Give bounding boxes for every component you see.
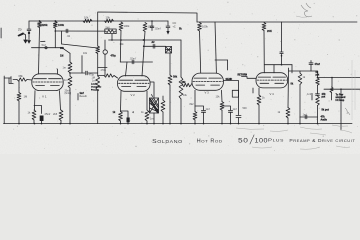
- supply drop: [97, 21, 99, 46]
- svg-text:FX loop: FX loop: [336, 99, 345, 102]
- x341 column: [340, 88, 342, 90]
- x61.6 drop to y44: [61, 31, 63, 44]
- scan noise streaks: [236, 125, 352, 149]
- svg-text:V 4: V 4: [270, 92, 275, 96]
- paper edge mark: [0, 28, 2, 38]
- svg-text:.02mf: .02mf: [155, 28, 161, 31]
- svg-text:1M: 1M: [60, 54, 63, 57]
- svg-text:PREAMP & DRIVE CIRCUIT: PREAMP & DRIVE CIRCUIT: [289, 138, 355, 143]
- svg-text:Reverb: Reverb: [80, 95, 88, 98]
- svg-text:V 2: V 2: [131, 93, 136, 97]
- svg-text:Preamp: Preamp: [91, 90, 100, 92]
- ladder top line y71: [289, 70, 318, 72]
- cathode left: [34, 91, 37, 110]
- small tick right of column: [41, 40, 46, 42]
- rail drop x281.5 with cap: [281, 22, 283, 52]
- left border wire: [3, 76, 5, 124]
- svg-text:V 1: V 1: [42, 94, 47, 98]
- y46.3 link: [144, 45, 166, 47]
- svg-text:8k2: 8k2: [190, 103, 195, 106]
- V1 right plate tick: [57, 69, 59, 74]
- jack: [4, 77, 11, 79]
- grid leak V2: [96, 76, 100, 90]
- tube V1: [32, 74, 63, 91]
- resistor 100k V2b: [143, 23, 147, 32]
- diagonal to x70: [62, 48, 70, 54]
- B+ rail A: [29, 20, 168, 22]
- left leg x300: [299, 71, 301, 73]
- electrolytic 25mf: [40, 116, 44, 122]
- svg-text:Lead: Lead: [91, 84, 97, 86]
- y40 line: [109, 39, 181, 41]
- cap .02 on y31: [65, 29, 67, 33]
- plate wires V2: [126, 62, 128, 76]
- input jack dark blob: [18, 32, 24, 36]
- tube V2: [118, 76, 151, 92]
- x78 stub: [77, 94, 79, 101]
- svg-text:500: 500: [243, 107, 248, 110]
- B+ rail B: [197, 21, 357, 23]
- svg-text:10k: 10k: [84, 15, 89, 19]
- svg-text:CC: CC: [173, 21, 177, 25]
- resistor 100k V2a: [119, 22, 123, 31]
- svg-text:100k: 100k: [58, 23, 64, 27]
- rail left drop column: [28, 21, 30, 29]
- y31 wire: [54, 28, 56, 31]
- riser x82: [81, 56, 83, 73]
- ground bus bottom: [4, 123, 353, 125]
- svg-text:39k: 39k: [173, 76, 178, 79]
- grid leak 1M: [18, 81, 20, 93]
- x170 column: [169, 53, 171, 75]
- svg-text:5k pot: 5k pot: [322, 109, 330, 112]
- svg-text:.02mf: .02mf: [130, 57, 136, 60]
- svg-text:.1mf: .1mf: [302, 114, 307, 116]
- svg-text:Overdrive: Overdrive: [91, 87, 102, 89]
- y64.7 link line: [264, 64, 292, 66]
- right leg x317.5: [317, 71, 319, 78]
- send wire from V3: [223, 81, 238, 115]
- resistor 100k: [54, 20, 56, 22]
- return wire to V4: [242, 77, 257, 79]
- svg-text:1m: 1m: [63, 67, 66, 70]
- svg-text:68k: 68k: [182, 81, 187, 84]
- resistor mid: [146, 91, 148, 110]
- resistor 1k: [32, 110, 36, 120]
- svg-text:47mf: 47mf: [315, 63, 321, 66]
- svg-text:PLUS: PLUS: [268, 138, 284, 143]
- resistor 100k V3: [198, 23, 202, 32]
- y62 line: [120, 61, 152, 63]
- svg-text:10k: 10k: [106, 15, 111, 19]
- dark box x168: [166, 47, 172, 54]
- resistor x163: [162, 96, 164, 100]
- svg-text:1m: 1m: [92, 80, 95, 83]
- grid resistor 68k V3: [183, 83, 192, 86]
- svg-text:.02: .02: [67, 35, 71, 38]
- svg-text:470p: 470p: [101, 69, 107, 72]
- svg-text:25mf: 25mf: [45, 112, 51, 116]
- pencil scribble: [301, 3, 312, 17]
- V1 plate column: [39, 28, 40, 75]
- right cathode V3: [221, 90, 224, 101]
- x55 lower column: [54, 31, 56, 48]
- svg-text:100k: 100k: [202, 25, 208, 29]
- cap 47mf: [310, 61, 312, 63]
- svg-text:V 3: V 3: [205, 90, 210, 94]
- rail drop x215: [215, 22, 216, 73]
- x181 divider column: [180, 40, 182, 77]
- resistor 10k rail 2: [105, 19, 114, 22]
- resistor 2k5 right cathode: [60, 91, 61, 110]
- svg-text:47k: 47k: [321, 116, 326, 119]
- ground arrow under rail cap: [27, 40, 31, 44]
- svg-text:220k: 220k: [42, 23, 48, 27]
- svg-text:25mf: 25mf: [65, 91, 70, 93]
- tube V4: [256, 73, 288, 88]
- 470p link: [70, 72, 85, 74]
- svg-text:2o: 2o: [18, 28, 22, 32]
- svg-text:20K: 20K: [267, 29, 272, 33]
- svg-text:2k5: 2k5: [53, 112, 58, 116]
- resistor 220k: [39, 20, 41, 22]
- small L near bus box: [311, 93, 313, 100]
- long output line y77.6: [318, 77, 360, 79]
- svg-text:1M: 1M: [24, 95, 28, 99]
- resistor 10k rail 1: [83, 19, 92, 22]
- filter cap 2 with gnd arrow: [167, 21, 169, 26]
- y44 sloped link: [62, 44, 98, 48]
- grid resistor V2: [104, 74, 114, 77]
- svg-text:1m: 1m: [150, 118, 153, 121]
- resistor 1m lower: [68, 76, 72, 88]
- resistor 1m upper: [69, 53, 71, 62]
- bus junctions: [18, 123, 20, 125]
- ground arrow input: [25, 35, 27, 40]
- tube V3: [192, 73, 223, 90]
- bypass cap circle: [104, 40, 106, 50]
- tick box to y40: [111, 34, 113, 40]
- svg-text:+C: +C: [173, 26, 176, 29]
- long output line y89.2: [324, 88, 360, 90]
- filter cap 1: [151, 20, 153, 22]
- svg-text:.1mf: .1mf: [307, 93, 312, 96]
- pot scribble box: [150, 82, 154, 98]
- y47.7 grid line: [32, 47, 63, 49]
- svg-text:68k: 68k: [19, 74, 24, 78]
- svg-text:50: 50: [238, 138, 249, 145]
- B+ upper detour: [98, 12, 197, 22]
- svg-text:1m: 1m: [64, 79, 67, 82]
- svg-text:pot: pot: [316, 74, 320, 77]
- svg-text:100k: 100k: [124, 24, 130, 28]
- resistor 20K: [262, 23, 266, 31]
- svg-text:.5mf: .5mf: [41, 44, 46, 47]
- svg-text:1mf: 1mf: [80, 93, 84, 95]
- svg-text:1mf: 1mf: [206, 108, 210, 111]
- x332 column: [331, 77, 333, 79]
- svg-text:1mf: 1mf: [233, 108, 237, 111]
- resistor 68k: [17, 78, 27, 81]
- svg-text:68k: 68k: [60, 47, 65, 50]
- svg-text:pot: pot: [322, 95, 326, 98]
- svg-text:Audio: Audio: [321, 118, 328, 121]
- svg-text:.02: .02: [151, 41, 155, 44]
